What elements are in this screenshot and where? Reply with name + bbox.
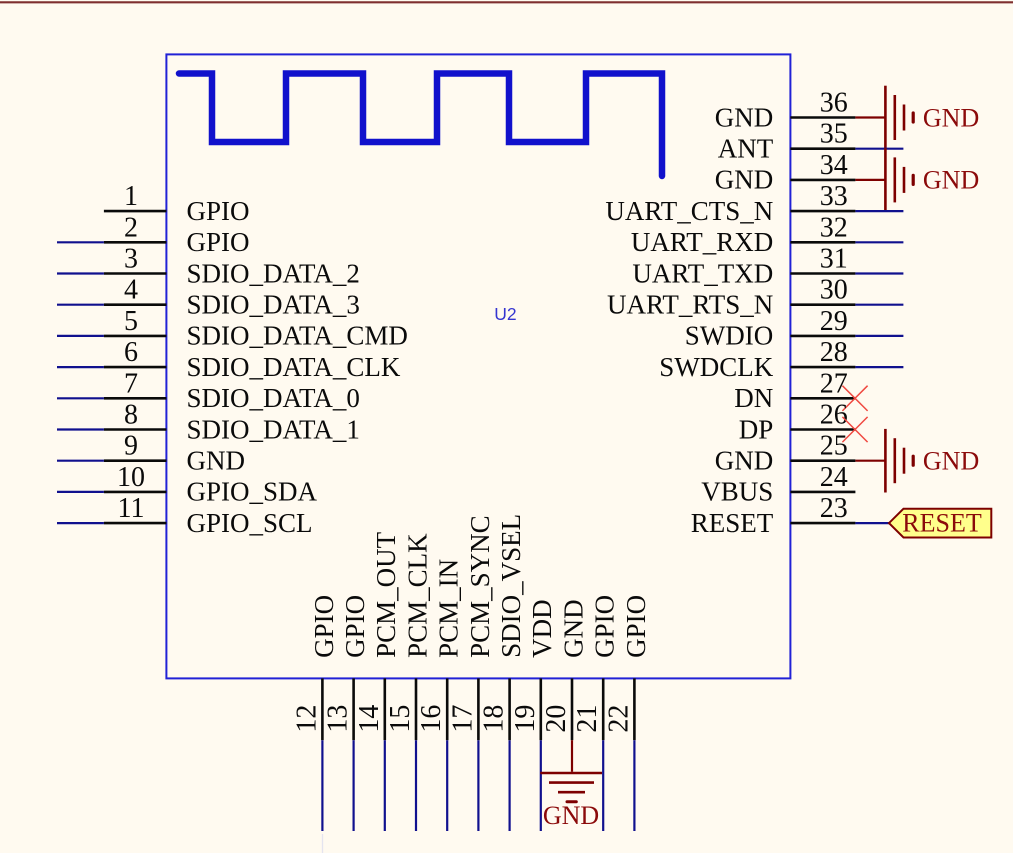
svg-text:2: 2 xyxy=(124,212,138,243)
svg-text:GPIO: GPIO xyxy=(340,595,370,658)
svg-text:GND: GND xyxy=(715,446,774,476)
svg-text:30: 30 xyxy=(820,275,848,306)
svg-text:26: 26 xyxy=(820,400,848,431)
svg-text:GND: GND xyxy=(715,165,774,195)
svg-text:U2: U2 xyxy=(494,304,516,324)
svg-text:29: 29 xyxy=(820,306,848,337)
svg-text:GPIO: GPIO xyxy=(309,595,339,658)
svg-text:18: 18 xyxy=(479,705,510,733)
svg-text:SWDIO: SWDIO xyxy=(685,321,774,351)
svg-text:DP: DP xyxy=(739,414,774,444)
svg-text:GND: GND xyxy=(923,103,979,132)
svg-text:PCM_OUT: PCM_OUT xyxy=(371,531,401,658)
svg-text:5: 5 xyxy=(124,306,138,337)
svg-text:GND: GND xyxy=(923,447,979,476)
svg-text:10: 10 xyxy=(117,462,145,493)
svg-text:34: 34 xyxy=(820,150,848,181)
svg-text:GND: GND xyxy=(715,102,774,132)
svg-text:35: 35 xyxy=(820,119,848,150)
svg-text:PCM_IN: PCM_IN xyxy=(434,559,464,658)
svg-text:UART_RTS_N: UART_RTS_N xyxy=(607,290,773,320)
svg-text:SWDCLK: SWDCLK xyxy=(659,352,774,382)
svg-text:8: 8 xyxy=(124,400,138,431)
svg-text:22: 22 xyxy=(603,705,634,733)
svg-text:9: 9 xyxy=(124,431,138,462)
svg-text:GND: GND xyxy=(187,446,246,476)
svg-text:SDIO_DATA_CMD: SDIO_DATA_CMD xyxy=(187,321,408,351)
svg-text:GPIO: GPIO xyxy=(590,595,620,658)
svg-text:GND: GND xyxy=(543,801,599,830)
svg-text:33: 33 xyxy=(820,181,848,212)
svg-text:20: 20 xyxy=(541,705,572,733)
svg-text:SDIO_DATA_3: SDIO_DATA_3 xyxy=(187,290,360,320)
svg-text:1: 1 xyxy=(124,181,138,212)
svg-text:6: 6 xyxy=(124,337,138,368)
svg-text:16: 16 xyxy=(416,705,447,733)
svg-text:17: 17 xyxy=(447,705,478,733)
svg-text:GPIO_SCL: GPIO_SCL xyxy=(187,508,313,538)
svg-text:31: 31 xyxy=(820,244,848,275)
svg-text:32: 32 xyxy=(820,212,848,243)
svg-text:21: 21 xyxy=(572,705,603,733)
svg-text:VBUS: VBUS xyxy=(701,477,773,507)
svg-text:GPIO_SDA: GPIO_SDA xyxy=(187,477,318,507)
svg-text:3: 3 xyxy=(124,244,138,275)
svg-text:PCM_CLK: PCM_CLK xyxy=(402,533,432,658)
svg-text:36: 36 xyxy=(820,88,848,119)
svg-text:GPIO: GPIO xyxy=(621,595,651,658)
svg-text:27: 27 xyxy=(820,368,848,399)
svg-text:15: 15 xyxy=(385,705,416,733)
svg-text:24: 24 xyxy=(820,462,848,493)
svg-text:ANT: ANT xyxy=(718,134,774,164)
svg-text:VDD: VDD xyxy=(527,599,557,658)
svg-text:SDIO_DATA_CLK: SDIO_DATA_CLK xyxy=(187,352,401,382)
svg-text:PCM_SYNC: PCM_SYNC xyxy=(465,515,495,658)
svg-text:28: 28 xyxy=(820,337,848,368)
svg-text:UART_TXD: UART_TXD xyxy=(632,258,773,288)
svg-text:12: 12 xyxy=(291,705,322,733)
svg-text:UART_RXD: UART_RXD xyxy=(631,227,773,257)
svg-text:25: 25 xyxy=(820,431,848,462)
svg-text:SDIO_DATA_2: SDIO_DATA_2 xyxy=(187,258,360,288)
svg-text:RESET: RESET xyxy=(902,509,982,538)
svg-text:SDIO_VSEL: SDIO_VSEL xyxy=(496,514,526,658)
svg-text:DN: DN xyxy=(734,383,773,413)
svg-text:19: 19 xyxy=(510,705,541,733)
svg-text:GND: GND xyxy=(923,166,979,195)
svg-text:14: 14 xyxy=(354,705,385,733)
svg-text:11: 11 xyxy=(118,493,145,524)
svg-text:GPIO: GPIO xyxy=(187,227,250,257)
svg-text:SDIO_DATA_0: SDIO_DATA_0 xyxy=(187,383,360,413)
svg-text:7: 7 xyxy=(124,368,138,399)
svg-text:RESET: RESET xyxy=(691,508,774,538)
svg-text:4: 4 xyxy=(124,275,138,306)
svg-text:13: 13 xyxy=(323,705,354,733)
svg-text:GND: GND xyxy=(558,599,588,658)
svg-text:SDIO_DATA_1: SDIO_DATA_1 xyxy=(187,414,360,444)
svg-text:UART_CTS_N: UART_CTS_N xyxy=(605,196,773,226)
svg-text:GPIO: GPIO xyxy=(187,196,250,226)
svg-text:23: 23 xyxy=(820,493,848,524)
